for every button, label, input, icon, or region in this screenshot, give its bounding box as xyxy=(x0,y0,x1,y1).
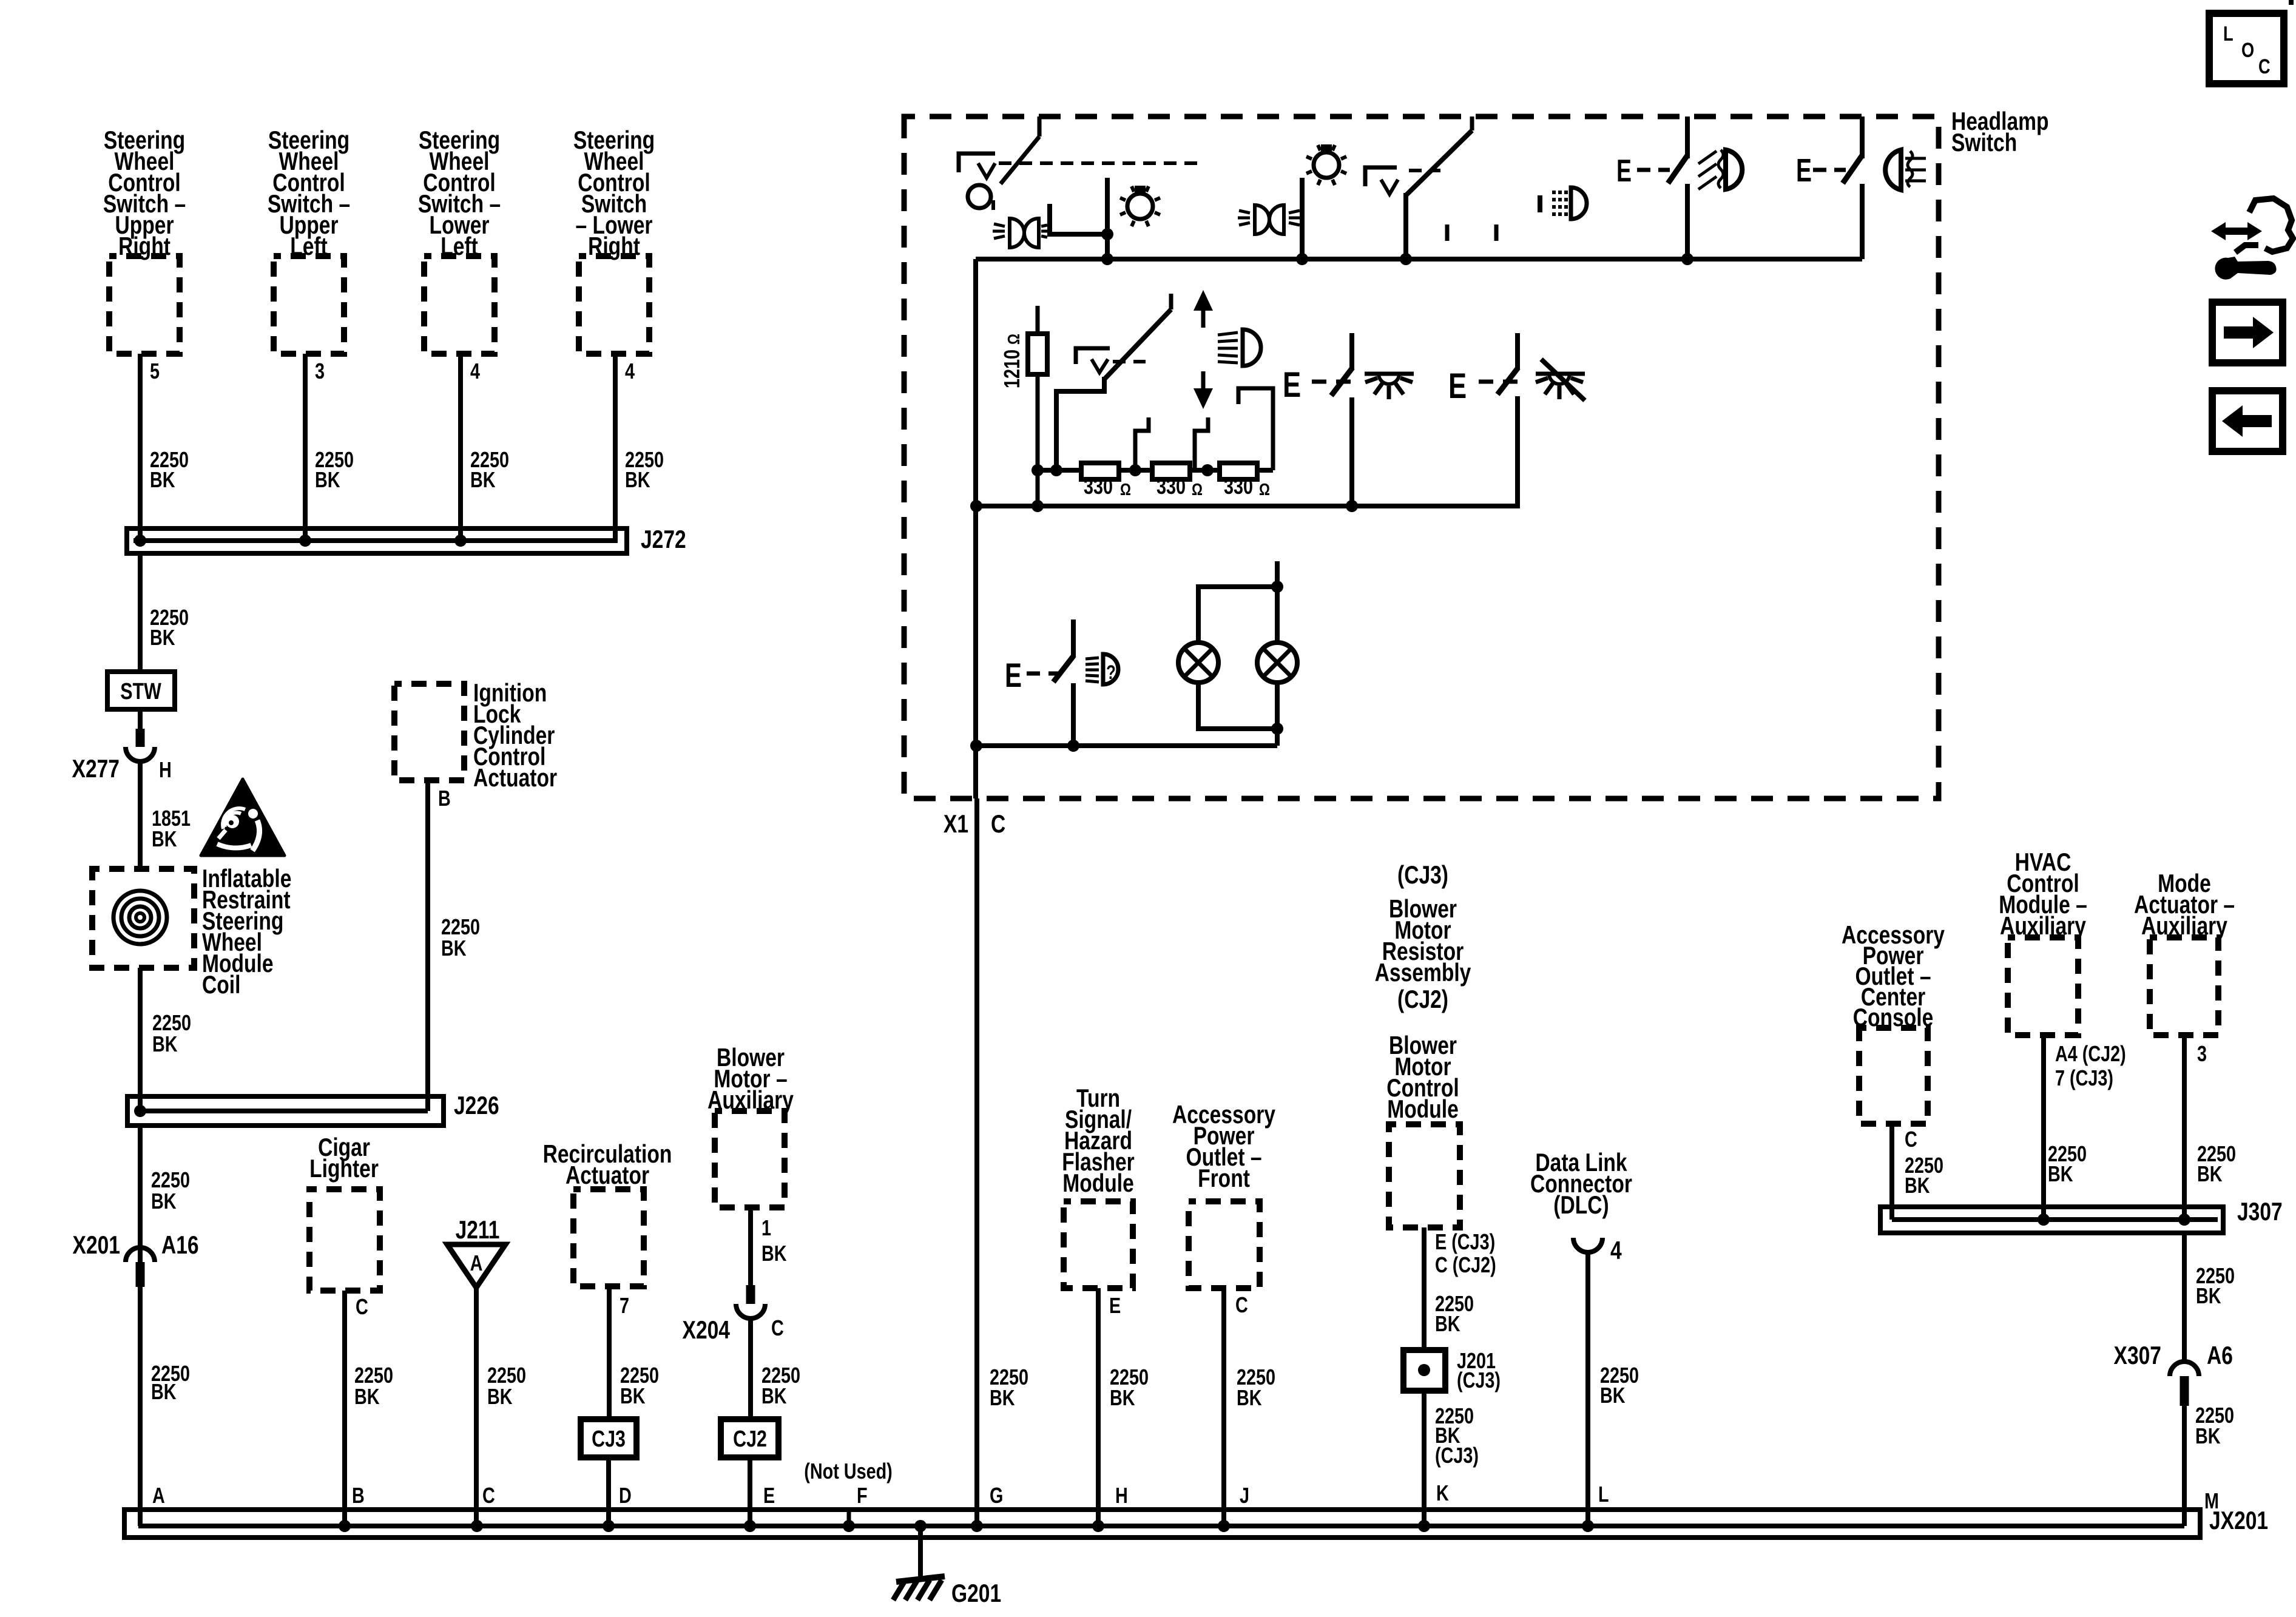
svg-text:3: 3 xyxy=(315,359,325,383)
junction dot JX201 x=1003 xyxy=(603,1520,615,1532)
svg-text:X204: X204 xyxy=(683,1317,730,1345)
junction dot JX201 x=2017 xyxy=(1218,1520,1230,1532)
DRL indicator icon (beam dots) xyxy=(1552,191,1556,194)
svg-text:BK: BK xyxy=(2196,1283,2221,1308)
front fog lamp icon (lamp) xyxy=(1726,150,1742,189)
ground bus JX201 xyxy=(124,1510,2200,1538)
page corner mark xyxy=(2289,0,2294,5)
svg-text:F: F xyxy=(857,1483,868,1508)
splice bus J272 xyxy=(127,528,627,553)
bottom band line xyxy=(976,743,1277,748)
svg-text:BK: BK xyxy=(152,826,177,851)
DRL indicator icon (tick) xyxy=(1538,195,1542,212)
wire J226 to X201 xyxy=(138,1126,143,1262)
junction dot node line 3 xyxy=(1296,253,1308,265)
headlamp icon (rays) xyxy=(1905,157,1926,160)
svg-text:C: C xyxy=(2258,55,2271,78)
svg-text:Ω: Ω xyxy=(1192,481,1203,499)
resistor 1210 ohm lead top xyxy=(1036,306,1040,334)
wire park lamp to node xyxy=(1050,204,1107,234)
svg-text:BK: BK xyxy=(1237,1385,1262,1410)
svg-text:330: 330 xyxy=(1224,474,1253,499)
steering wheel control switch S2 (dashed box) xyxy=(274,256,344,354)
wire CJ2 to JX201 terminal E xyxy=(748,1457,752,1526)
svg-text:Assembly: Assembly xyxy=(1375,959,1471,987)
panel dim switch B output wire xyxy=(1515,396,1520,508)
svg-text:J307: J307 xyxy=(2237,1198,2283,1226)
panel dim switch A blade xyxy=(1331,368,1352,396)
junction dot J272-A xyxy=(134,535,146,547)
svg-text:E: E xyxy=(1005,657,1022,694)
recirculation actuator (dashed box) xyxy=(573,1189,644,1286)
svg-text:BK: BK xyxy=(2195,1423,2221,1448)
svg-text:E: E xyxy=(763,1483,775,1508)
svg-text:J272: J272 xyxy=(641,526,686,554)
svg-text:C: C xyxy=(1235,1292,1248,1317)
chain tap stub 1 xyxy=(1135,417,1149,470)
svg-text:J211: J211 xyxy=(456,1217,500,1244)
wire park lamp branch vertical xyxy=(1105,178,1110,259)
svg-text:E (CJ3): E (CJ3) xyxy=(1435,1229,1495,1254)
accessory power outlet front (dashed box) xyxy=(1189,1201,1260,1288)
junction dot JX201 x=1399 xyxy=(843,1520,855,1532)
svg-text:BK: BK xyxy=(1905,1173,1930,1198)
svg-text:A4 (CJ2): A4 (CJ2) xyxy=(2055,1041,2126,1066)
back navigation box xyxy=(2212,391,2283,451)
svg-text:Front: Front xyxy=(1198,1165,1250,1193)
wire STW to X277 xyxy=(138,709,143,731)
svg-text:X201: X201 xyxy=(73,1232,120,1260)
svg-text:7: 7 xyxy=(620,1293,629,1318)
svg-text:?: ? xyxy=(1106,662,1116,683)
junction dot G201 xyxy=(914,1520,927,1532)
svg-text:STW: STW xyxy=(120,679,161,704)
middle band bus xyxy=(976,504,1518,508)
svg-text:4: 4 xyxy=(625,359,635,383)
svg-text:G: G xyxy=(990,1483,1003,1508)
headlamp master switch input wire xyxy=(1860,116,1865,158)
chain tap stub 2 xyxy=(1195,417,1208,470)
park lamp icon 2 (left rays) xyxy=(1239,211,1250,213)
bulb bottom wiring xyxy=(1198,683,1277,729)
svg-text:Module: Module xyxy=(1062,1170,1134,1198)
svg-text:BK: BK xyxy=(150,625,175,650)
dimmer rheostat blade xyxy=(1169,294,1173,309)
junction dot J307-mode xyxy=(2178,1214,2190,1226)
svg-text:BK: BK xyxy=(151,1379,177,1404)
wire recirculation pin 7 to CJ3 xyxy=(607,1286,612,1419)
junction dot JX201 x=1810 xyxy=(1092,1520,1104,1532)
wire ignition actuator pin B to J226 xyxy=(425,780,430,1111)
wire outlet pin C to JX201 terminal J xyxy=(1221,1288,1226,1526)
svg-text:3: 3 xyxy=(2197,1041,2207,1066)
resistor 1210 ohm xyxy=(1028,334,1047,374)
node line (top band output) xyxy=(976,257,1862,262)
svg-text:X277: X277 xyxy=(72,755,120,783)
wire S2 pivot to node line xyxy=(1403,193,1408,259)
panel dim switch B blade xyxy=(1497,368,1518,394)
wire flasher pin E to JX201 terminal H xyxy=(1096,1288,1101,1526)
LOC reference box xyxy=(2209,13,2284,84)
svg-text:BK: BK xyxy=(315,467,340,492)
mechanical link (dashed) S1 xyxy=(999,161,1200,165)
junction dot JX201 x=568 xyxy=(339,1520,351,1532)
svg-text:L: L xyxy=(1598,1482,1609,1507)
wire S3 pin to J272 xyxy=(458,354,463,543)
junction dot JX201 x=1610 xyxy=(971,1520,983,1532)
svg-text:A6: A6 xyxy=(2207,1342,2233,1370)
resistor 1210 lead bottom xyxy=(1036,374,1040,506)
junction dot node line 2 xyxy=(1400,253,1412,265)
svg-text:X307: X307 xyxy=(2114,1342,2161,1370)
svg-text:E: E xyxy=(1283,366,1301,405)
junction dot bulb bottom xyxy=(1271,723,1283,735)
connector CJ3 box xyxy=(581,1419,636,1457)
svg-text:C: C xyxy=(1905,1127,1917,1152)
wire X1-C to JX201 terminal G xyxy=(974,798,979,1526)
resistor 330-2 xyxy=(1152,463,1190,479)
connector X201 pin A16 (inline connector symbol) xyxy=(126,1247,155,1262)
svg-text:B: B xyxy=(352,1483,365,1508)
park lamp icon (right rays) xyxy=(1041,225,1047,226)
junction dot J272-B xyxy=(299,535,311,547)
park lamp icon 2 (lamp pair) xyxy=(1255,205,1269,234)
svg-text:330: 330 xyxy=(1084,474,1113,499)
steering wheel control switch S4 (dashed box) xyxy=(579,256,649,354)
resistor 330-1 xyxy=(1081,463,1119,479)
svg-text:C: C xyxy=(356,1294,368,1319)
wire J307 to X307 xyxy=(2182,1233,2187,1362)
cigar lighter (dashed box) xyxy=(309,1189,380,1291)
park lamp icon (lamp pair) xyxy=(1010,218,1024,248)
connector X277 pin H (inline connector symbol) xyxy=(136,729,145,747)
svg-text:D: D xyxy=(619,1483,632,1508)
svg-text:BK: BK xyxy=(150,467,175,492)
ground stub G201 xyxy=(918,1526,923,1578)
steering wheel position symbol STW box xyxy=(107,672,175,709)
svg-text:BK: BK xyxy=(487,1384,513,1409)
splice pack J211 triangle symbol xyxy=(447,1244,505,1288)
junction dot JX201 x=1236 xyxy=(744,1520,756,1532)
park lamp icon (left rays) xyxy=(994,224,1005,226)
junction dot JX201 x=786 xyxy=(471,1520,483,1532)
park/auto switch output wire xyxy=(1071,683,1076,746)
svg-text:H: H xyxy=(1115,1483,1128,1508)
front fog lamp icon (wavy line) xyxy=(1718,150,1723,188)
mode actuator auxiliary (dashed box) xyxy=(2150,937,2218,1035)
svg-text:X1: X1 xyxy=(944,811,968,839)
svg-text:L: L xyxy=(2223,22,2234,46)
coil (clockspring) symbol xyxy=(113,891,167,944)
resistor chain line xyxy=(1038,468,1273,473)
svg-text:1: 1 xyxy=(761,1215,771,1240)
svg-text:(DLC): (DLC) xyxy=(1553,1192,1609,1220)
svg-text:(CJ3): (CJ3) xyxy=(1457,1368,1501,1393)
svg-text:Lighter: Lighter xyxy=(309,1155,379,1183)
headlamp switch (dashed enclosure) xyxy=(904,116,1939,798)
SIR warning triangle symbol xyxy=(201,779,285,856)
accessory power outlet center console (dashed box) xyxy=(1859,1028,1928,1124)
junction dot switch A bus xyxy=(1346,500,1358,512)
park/auto switch input wire xyxy=(1071,619,1076,657)
svg-text:A: A xyxy=(152,1483,165,1508)
wire branch vertical 2 xyxy=(1300,178,1305,259)
panel lamp off icon (sunrise crossed) xyxy=(1536,372,1585,376)
fog lamp switch input wire xyxy=(1685,116,1690,158)
wire X277 to coil xyxy=(138,761,143,871)
svg-text:CJ2: CJ2 xyxy=(733,1426,767,1452)
high beam icon (lamp) xyxy=(1243,329,1261,366)
wire mode actuator pin 3 to J307 xyxy=(2182,1035,2187,1220)
svg-text:5: 5 xyxy=(150,359,160,383)
wire outlet CC pin C to J307 xyxy=(1889,1124,1894,1220)
blower motor auxiliary (dashed box) xyxy=(715,1111,785,1207)
auto headlamp icon (lamp with question mark) xyxy=(1103,654,1118,684)
svg-text:CJ3: CJ3 xyxy=(592,1426,626,1452)
svg-text:BK: BK xyxy=(470,467,496,492)
junction dot rail-bus xyxy=(970,500,982,512)
svg-text:Ω: Ω xyxy=(1120,481,1131,499)
wire J201 to JX201 terminal K xyxy=(1422,1391,1427,1526)
panel dim switch A input wire xyxy=(1349,333,1354,370)
park lamp icon 2 (right rays) xyxy=(1289,211,1300,213)
splice bus J226 xyxy=(127,1096,444,1126)
contact stub below S1 xyxy=(991,200,995,210)
junction dot tap1 xyxy=(1129,464,1141,476)
splice bus J307 xyxy=(1880,1207,2223,1233)
left rail wire xyxy=(973,259,978,798)
svg-text:O: O xyxy=(2241,38,2254,62)
junction dot J226-A xyxy=(134,1105,146,1117)
svg-text:Coil: Coil xyxy=(202,971,240,999)
steering wheel control switch S3 (dashed box) xyxy=(424,256,495,354)
svg-text:BK: BK xyxy=(2197,1161,2223,1186)
svg-text:4: 4 xyxy=(470,359,480,383)
park/auto switch blade xyxy=(1053,655,1074,682)
svg-text:K: K xyxy=(1436,1480,1449,1505)
svg-text:C: C xyxy=(482,1483,495,1508)
junction dot bulb top xyxy=(1271,581,1283,593)
junction dot 1210-bus xyxy=(1032,500,1044,512)
auto headlamp icon (rays) xyxy=(1086,658,1099,659)
svg-text:E: E xyxy=(1796,152,1812,189)
off-contact symbol S2 (bar-v) xyxy=(1365,167,1397,186)
mechanical link dashes S2 xyxy=(1409,169,1440,172)
svg-text:BK: BK xyxy=(152,1031,178,1056)
parklamp bulb left xyxy=(1178,643,1218,683)
junction dot JX201 x=2347 xyxy=(1418,1520,1430,1532)
turn signal hazard flasher module (dashed box) xyxy=(1064,1201,1133,1288)
headlamp icon (wavy line) xyxy=(1908,151,1913,187)
wire S4 pin to J272 xyxy=(613,354,618,543)
svg-text:BK: BK xyxy=(1600,1383,1626,1408)
wire BMCM to J201 xyxy=(1422,1227,1427,1350)
dimmer mechanical link dashes xyxy=(1113,360,1146,363)
svg-text:BK: BK xyxy=(151,1189,177,1214)
blower motor control module (dashed box) xyxy=(1389,1124,1460,1227)
front fog lamp icon (rays) xyxy=(1698,151,1717,164)
repair instructions icon (hand with wrench) xyxy=(2235,198,2293,252)
svg-text:BK: BK xyxy=(2048,1161,2073,1186)
svg-text:Module: Module xyxy=(1387,1096,1459,1124)
bulb top loop wiring xyxy=(1198,587,1277,643)
svg-text:330: 330 xyxy=(1156,474,1186,499)
high beam icon (rays) xyxy=(1218,333,1238,335)
svg-text:(CJ3): (CJ3) xyxy=(1397,862,1448,890)
junction dot node line 4 xyxy=(1681,253,1693,265)
svg-text:G201: G201 xyxy=(951,1580,1001,1608)
svg-text:Ω: Ω xyxy=(1259,481,1270,499)
svg-text:BK: BK xyxy=(990,1385,1015,1410)
dimmer pivot wire to resistor chain xyxy=(1056,377,1104,470)
fog lamp switch blade xyxy=(1668,155,1687,183)
svg-text:C: C xyxy=(991,811,1005,839)
svg-text:J226: J226 xyxy=(454,1092,499,1120)
svg-text:B: B xyxy=(438,786,451,811)
contact stub S2-a xyxy=(1445,224,1450,241)
rotary contact circle S1 xyxy=(968,185,991,208)
HVAC control module auxiliary (dashed box) xyxy=(2008,937,2078,1035)
panel lamp icon (sunrise) xyxy=(1365,372,1414,376)
switch blade S2 (headlamp rotary) xyxy=(1470,116,1474,130)
instrument illumination lamp icon 2 xyxy=(1314,152,1339,178)
svg-text:E: E xyxy=(1616,153,1632,189)
chain right return xyxy=(1238,388,1273,470)
svg-text:JX201: JX201 xyxy=(2209,1507,2268,1535)
headlamp master switch output wire xyxy=(1860,184,1865,259)
panel dim switch A output wire xyxy=(1349,397,1354,506)
ground symbol G201 xyxy=(896,1576,945,1582)
svg-text:BK: BK xyxy=(761,1383,787,1408)
junction dot J272-C xyxy=(454,535,467,547)
panel dim switch B input wire xyxy=(1515,333,1520,370)
ignition lock cylinder control actuator (dashed box) xyxy=(394,684,464,780)
svg-text:Actuator: Actuator xyxy=(473,765,557,792)
resistor 330-3 xyxy=(1220,463,1257,479)
DLC connector symbol xyxy=(1573,1238,1602,1252)
svg-text:Actuator: Actuator xyxy=(566,1162,649,1190)
wire S1 pin to J272 xyxy=(138,354,143,543)
DRL indicator icon (lamp) xyxy=(1571,187,1587,219)
junction dot node line 1 xyxy=(1101,253,1113,265)
svg-text:BK: BK xyxy=(1435,1311,1460,1336)
wire coil to J226 xyxy=(138,968,143,1113)
wire blower motor pin 1 to X204 xyxy=(748,1207,753,1286)
junction dot J201 xyxy=(1418,1364,1430,1376)
svg-text:E: E xyxy=(1109,1293,1121,1318)
steering wheel control switch S1 (dashed box) xyxy=(109,256,180,354)
terminal F stub xyxy=(847,1512,851,1526)
dimmer contact symbol (bar-v) xyxy=(1076,348,1110,364)
junction dot park lamp wire xyxy=(1101,228,1113,240)
contact stub S2-b xyxy=(1494,224,1499,241)
junction dot J307-HVAC xyxy=(2038,1214,2050,1226)
svg-text:BK: BK xyxy=(625,467,650,492)
svg-text:BK: BK xyxy=(441,936,467,960)
svg-text:4: 4 xyxy=(1610,1237,1622,1265)
wire X307 to JX201 terminal M xyxy=(2182,1406,2187,1526)
svg-text:BK: BK xyxy=(620,1383,646,1408)
svg-text:J: J xyxy=(1240,1483,1249,1508)
junction dot chain-1210 xyxy=(1032,464,1044,476)
svg-text:A16: A16 xyxy=(161,1232,199,1260)
svg-text:E: E xyxy=(1448,367,1467,407)
connector CJ2 box xyxy=(721,1419,778,1457)
wire cigar lighter pin C to JX201 terminal B xyxy=(342,1291,347,1526)
connector X307 pin A6 (inline connector symbol) xyxy=(2170,1362,2199,1376)
wire X201 to JX201 terminal A xyxy=(138,1287,143,1526)
svg-text:(Not Used): (Not Used) xyxy=(804,1459,893,1484)
svg-text:BK: BK xyxy=(761,1241,787,1266)
svg-text:(CJ3): (CJ3) xyxy=(1435,1443,1479,1468)
wire J272 to STW xyxy=(138,552,143,672)
instrument illumination lamp icon 1 xyxy=(1127,194,1153,219)
junction dot chain-pivot xyxy=(1050,464,1062,476)
switch blade S1 (dome/off position) xyxy=(1038,116,1042,137)
connector X204 pin C (inline connector symbol) xyxy=(746,1285,755,1304)
forward navigation box xyxy=(2212,302,2283,363)
svg-text:Switch: Switch xyxy=(1951,129,2017,157)
junction dot tap2 xyxy=(1201,464,1214,476)
svg-text:BK: BK xyxy=(354,1384,380,1409)
headlamp master switch blade xyxy=(1843,155,1862,183)
svg-text:C (CJ2): C (CJ2) xyxy=(1435,1252,1496,1277)
headlamp icon (lamp) xyxy=(1885,150,1901,190)
wire S2 pin to J272 xyxy=(303,354,308,543)
svg-text:A: A xyxy=(470,1251,483,1275)
bulb feed stub xyxy=(1275,561,1280,587)
wire CJ3 to JX201 terminal D xyxy=(606,1457,611,1526)
svg-text:(CJ2): (CJ2) xyxy=(1397,986,1448,1014)
wire X204 to CJ2 xyxy=(748,1318,753,1419)
wire HVAC pin to J307 xyxy=(2041,1035,2046,1220)
inflatable restraint steering wheel module coil (dashed box) xyxy=(92,869,194,968)
svg-text:7 (CJ3): 7 (CJ3) xyxy=(2055,1065,2113,1090)
off-contact symbol S1 (bar-v) xyxy=(959,154,995,172)
splice J201 box xyxy=(1403,1350,1445,1391)
svg-text:H: H xyxy=(159,757,172,782)
junction dot JX201 x=2617 xyxy=(1582,1520,1594,1532)
wire J211 to JX201 terminal C xyxy=(474,1285,479,1526)
parklamp bulb right xyxy=(1257,643,1297,683)
junction dot rail-bottomline xyxy=(970,740,982,752)
wire DLC pin 4 to JX201 terminal L xyxy=(1585,1251,1590,1526)
svg-text:C: C xyxy=(771,1315,784,1340)
fog lamp switch output wire xyxy=(1685,184,1690,259)
dimmer up/down arrow xyxy=(1201,307,1206,328)
junction dot park-switch bottomline xyxy=(1067,740,1079,752)
svg-text:BK: BK xyxy=(1110,1385,1135,1410)
